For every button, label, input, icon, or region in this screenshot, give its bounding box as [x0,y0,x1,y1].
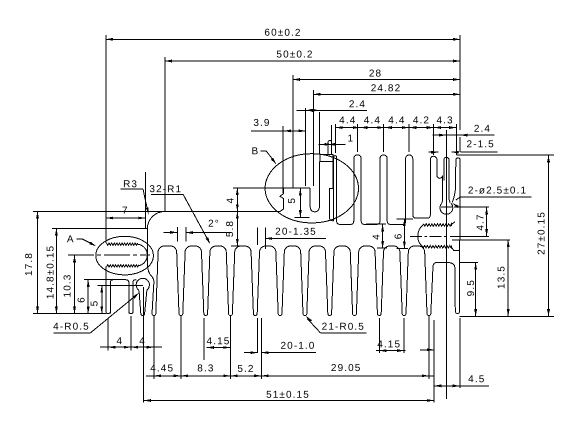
channel left tip [418,225,424,247]
dim 28 [293,68,460,81]
fin F2 tip [129,312,133,314]
dim 1.0 slot arrows [244,351,316,354]
svg-text:3.9: 3.9 [253,118,270,129]
label 4-R0.5 [53,293,139,333]
lower fin tip x=354.5 [353,314,357,316]
dim 6 left [77,280,90,314]
mushroom head circle [136,278,149,290]
thin fin above hole [444,157,450,202]
label 32-R1 [149,184,210,244]
gap ceiling before lower fin at x=280.1 [257,246,278,314]
floor fin1-fin2 [340,223,351,225]
gap ceiling before lower fin at x=205.7 [183,246,204,314]
svg-text:2-1.5: 2-1.5 [467,139,495,150]
svg-text:4.45: 4.45 [150,363,174,374]
floor fin4-fin5 [416,217,427,219]
svg-text:10.3: 10.3 [62,274,73,298]
svg-text:4: 4 [371,233,382,240]
dim 6 right [394,219,413,249]
gap ceiling before lower fin at x=354.5 [332,246,353,314]
left section top edge [52,228,147,230]
dim 24.82 [313,83,460,96]
dim 51±0.15 [144,390,435,402]
screw hole centre mark [441,206,452,208]
channel right top join [452,222,455,225]
ext 9.5 top [460,261,478,263]
dim 2.4 top [297,99,368,112]
last lower fin right edge to notch floor [431,262,438,313]
dim 4 right [366,224,387,248]
ext line fin x=456.4 [455,124,457,155]
label R3 [121,179,149,214]
svg-text:5: 5 [90,300,101,307]
lower fin tip x=205.7 [204,314,208,316]
ext fin edge x=331.6 [319,112,331,155]
label B [252,146,277,164]
dim 3.9 [251,118,306,132]
lower fin tip x=404.1 [402,314,406,316]
left face lower [105,267,107,312]
label 4.15 right [377,339,401,350]
screw hole 2-2.5 (upper) [440,203,453,214]
gap ceiling before lower fin at x=255.3 [232,246,253,314]
svg-text:4.15: 4.15 [377,339,401,350]
dim 9.5 [466,262,477,316]
upper fin3 x=383.5 [377,155,391,225]
dim 50±0.2 [165,49,460,62]
upper fin2 x=357.5 [351,155,365,225]
svg-text:2-ø2.5±0.1: 2-ø2.5±0.1 [468,185,527,196]
detail circle B [265,154,358,223]
svg-text:4: 4 [139,336,146,347]
ext 6 top [84,279,115,281]
dim 10.3 [62,255,76,313]
svg-text:2°: 2° [208,219,220,230]
svg-text:7: 7 [122,205,129,216]
svg-text:6: 6 [394,233,405,240]
2deg ext lines [177,227,185,242]
svg-text:4.15: 4.15 [207,336,231,347]
ext line x=283.2 [282,126,284,193]
ext line fin x=357.5 [357,124,359,152]
ext line 24.82 left [312,90,314,186]
svg-text:5.2: 5.2 [237,364,254,375]
detail circle A [96,236,154,275]
svg-text:28: 28 [369,68,382,79]
dim 4.7 [450,207,489,236]
dim 4 upper-left [226,188,284,212]
svg-text:51±0.15: 51±0.15 [266,390,310,401]
svg-text:27±0.15: 27±0.15 [537,211,548,255]
gap ceiling before lower fin at x=230.5 [208,246,229,314]
gap ceiling before lower fin at x=404.1 [381,246,402,314]
dim 27±0.15 [537,155,551,316]
2deg arrows [164,219,232,234]
lower fin tip x=428.9 [427,314,431,316]
svg-text:5.8: 5.8 [225,220,236,237]
ext lines chain [181,316,429,379]
lower fin tip x=329.7 [328,314,332,316]
fin F3 tip [152,314,156,316]
channel centreline [410,235,449,237]
floor block-fin1 [333,220,334,222]
label A [67,234,96,246]
left face upper [105,229,107,244]
ext line 50 left [164,57,166,212]
svg-text:60±0.2: 60±0.2 [264,28,301,39]
svg-text:4: 4 [116,336,123,347]
gap ceiling before lower fin at x=428.9 [406,246,427,314]
svg-text:8.3: 8.3 [197,363,214,374]
mushroom fin taper [139,290,147,315]
svg-text:14.8±0.15: 14.8±0.15 [46,245,57,299]
ext 17.8 bottom [33,313,106,315]
svg-text:1: 1 [347,133,354,144]
dim 4.15 right [376,318,406,353]
fin F3 left edge [152,276,154,313]
block slot [310,162,319,212]
ext 51 lines [144,287,435,403]
block ledge [284,187,311,189]
lower fin tip x=280.1 [278,314,282,316]
dim 4|4 [100,336,162,349]
svg-text:20-1.35: 20-1.35 [275,227,317,238]
dim 5 left [90,285,104,313]
slot centreline [68,254,150,256]
chain dims 4.45/8.3/5.2/29.05 [146,363,434,377]
right face lower [459,250,461,311]
lower fin tip x=379.3 [377,314,381,316]
dim 4.5 [420,318,489,388]
ext 27 top [457,137,554,155]
svg-text:13.5: 13.5 [497,265,508,289]
lower fin tip x=230.5 [229,314,233,316]
dim 1 [319,133,355,145]
notch floor right corner down [446,262,455,311]
baseline right [460,315,554,317]
block right side [329,162,333,221]
svg-text:21-R0.5: 21-R0.5 [322,322,365,333]
channel bottom serration [423,246,451,248]
dim 60±0.2 [106,28,460,41]
ext hole centre [445,130,447,399]
gap ceiling before lower fin at x=304.9 [282,246,303,314]
svg-text:4-R0.5: 4-R0.5 [53,322,90,333]
ext line right (x=460.2) [459,35,461,130]
svg-text:4.4: 4.4 [339,115,356,126]
ext line 28 left [292,75,294,188]
serrated slot right end [138,244,148,266]
thin fin on cap [328,141,332,155]
channel right ledge [452,247,460,250]
svg-text:2.4: 2.4 [474,124,491,135]
floor fin3-fin4 [390,223,402,225]
svg-text:4.4: 4.4 [388,115,405,126]
upper fin4 x=409.1 [402,155,416,225]
ext 5 top [98,284,143,286]
svg-text:4.5: 4.5 [468,374,485,385]
ext line fin x=409.1 [408,124,410,152]
lower fin tip x=180.9 [179,314,183,316]
label 2-1.5 dim parts [429,139,498,153]
serrated slot bottom edge [107,265,139,267]
svg-text:4.7: 4.7 [476,213,487,230]
svg-text:32-R1: 32-R1 [149,184,182,195]
ext line 60 left (x=106) [105,35,107,229]
ext line fin x=383.5 [383,124,385,152]
svg-text:A: A [67,234,75,245]
dim 17.8 [24,212,39,314]
dim 7 [106,172,146,228]
svg-text:5: 5 [287,197,298,204]
slot1 bottom arc (1.5 slot) [437,176,443,204]
dim 2.4 right [433,124,495,137]
svg-text:4.3: 4.3 [436,115,453,126]
svg-text:B: B [252,146,260,157]
svg-text:24.82: 24.82 [371,83,402,94]
upper fin5 [427,156,437,218]
ext lines 4|4 [108,316,154,379]
label 21-R0.5 [306,316,367,333]
wall below R3 corner [147,229,151,277]
middle top surface [33,211,280,213]
svg-text:4: 4 [226,197,237,204]
svg-text:29.05: 29.05 [331,363,362,374]
block cap [320,155,333,162]
gap F2-mushroom ceiling [133,280,137,312]
thin fin1 x=335 [334,156,340,225]
floor fin2-fin3 [364,223,376,225]
svg-text:2.4: 2.4 [349,99,366,110]
serrated slot top edge [107,243,138,245]
dim 14.8±0.15 [46,229,58,314]
svg-text:50±0.2: 50±0.2 [276,49,313,60]
label 20-1.35 [257,227,326,249]
svg-text:17.8: 17.8 [24,252,35,276]
svg-text:6: 6 [77,296,88,303]
dim row 4.4/4.4/4.4/4.2/4.3 [335,115,456,129]
gap ceiling before lower fin at x=180.9 [156,246,179,314]
dim 5 in circle B [287,188,310,217]
label 20-1.0 [281,341,316,352]
svg-text:4.2: 4.2 [413,115,430,126]
gap F1-F2 ceiling [110,280,129,314]
lower fin tip x=304.9 [303,314,307,316]
lower fin tip x=255.3 [253,314,257,316]
gap ceiling before lower fin at x=329.7 [307,246,328,314]
gap ceiling before lower fin at x=379.3 [356,246,377,314]
channel top serration [424,224,452,226]
ext line fin x=433.6 [433,124,435,155]
svg-text:4.4: 4.4 [364,115,381,126]
dim 5.8 [225,212,243,247]
right wall cap [452,158,460,251]
block left wall with kink [280,188,284,212]
dim 13.5 [497,240,510,316]
corner R3 (step up to middle surface) [147,211,164,228]
ext 13.5 top [452,239,510,241]
ext line x=305.7 [305,108,307,186]
ext line fin x=335.4 [334,124,336,153]
svg-text:20-1.0: 20-1.0 [281,341,316,352]
fin F1 tip [106,312,110,314]
svg-text:9.5: 9.5 [466,279,477,296]
label 2-ø2.5±0.1 [452,185,532,208]
right end fin tip [455,311,459,313]
dim 4.15 left [204,318,230,360]
notch floor (9.5 ref) [437,261,446,263]
